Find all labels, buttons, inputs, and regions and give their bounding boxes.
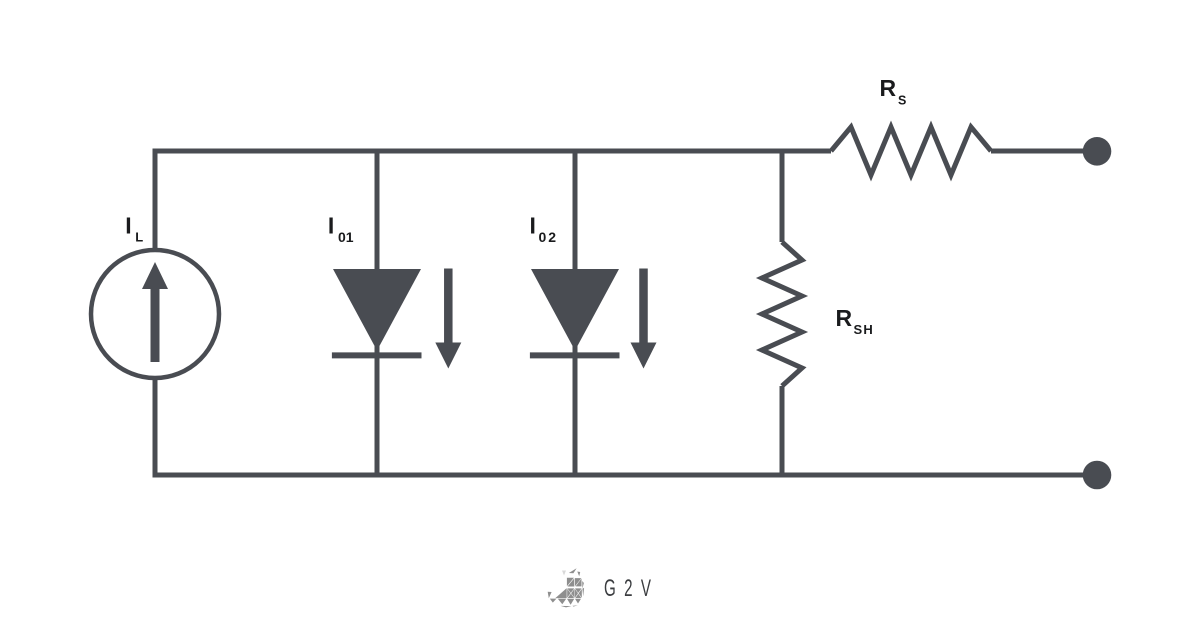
- svg-text:R: R: [880, 75, 897, 101]
- svg-text:L: L: [135, 230, 143, 245]
- svg-text:SH: SH: [854, 322, 874, 337]
- svg-text:I: I: [125, 213, 131, 239]
- svg-text:G2V: G2V: [604, 576, 659, 602]
- svg-text:01: 01: [338, 229, 354, 245]
- svg-text:02: 02: [539, 229, 559, 245]
- svg-text:S: S: [898, 94, 906, 108]
- svg-text:I: I: [328, 213, 334, 239]
- svg-text:I: I: [530, 213, 536, 239]
- svg-text:R: R: [836, 305, 853, 331]
